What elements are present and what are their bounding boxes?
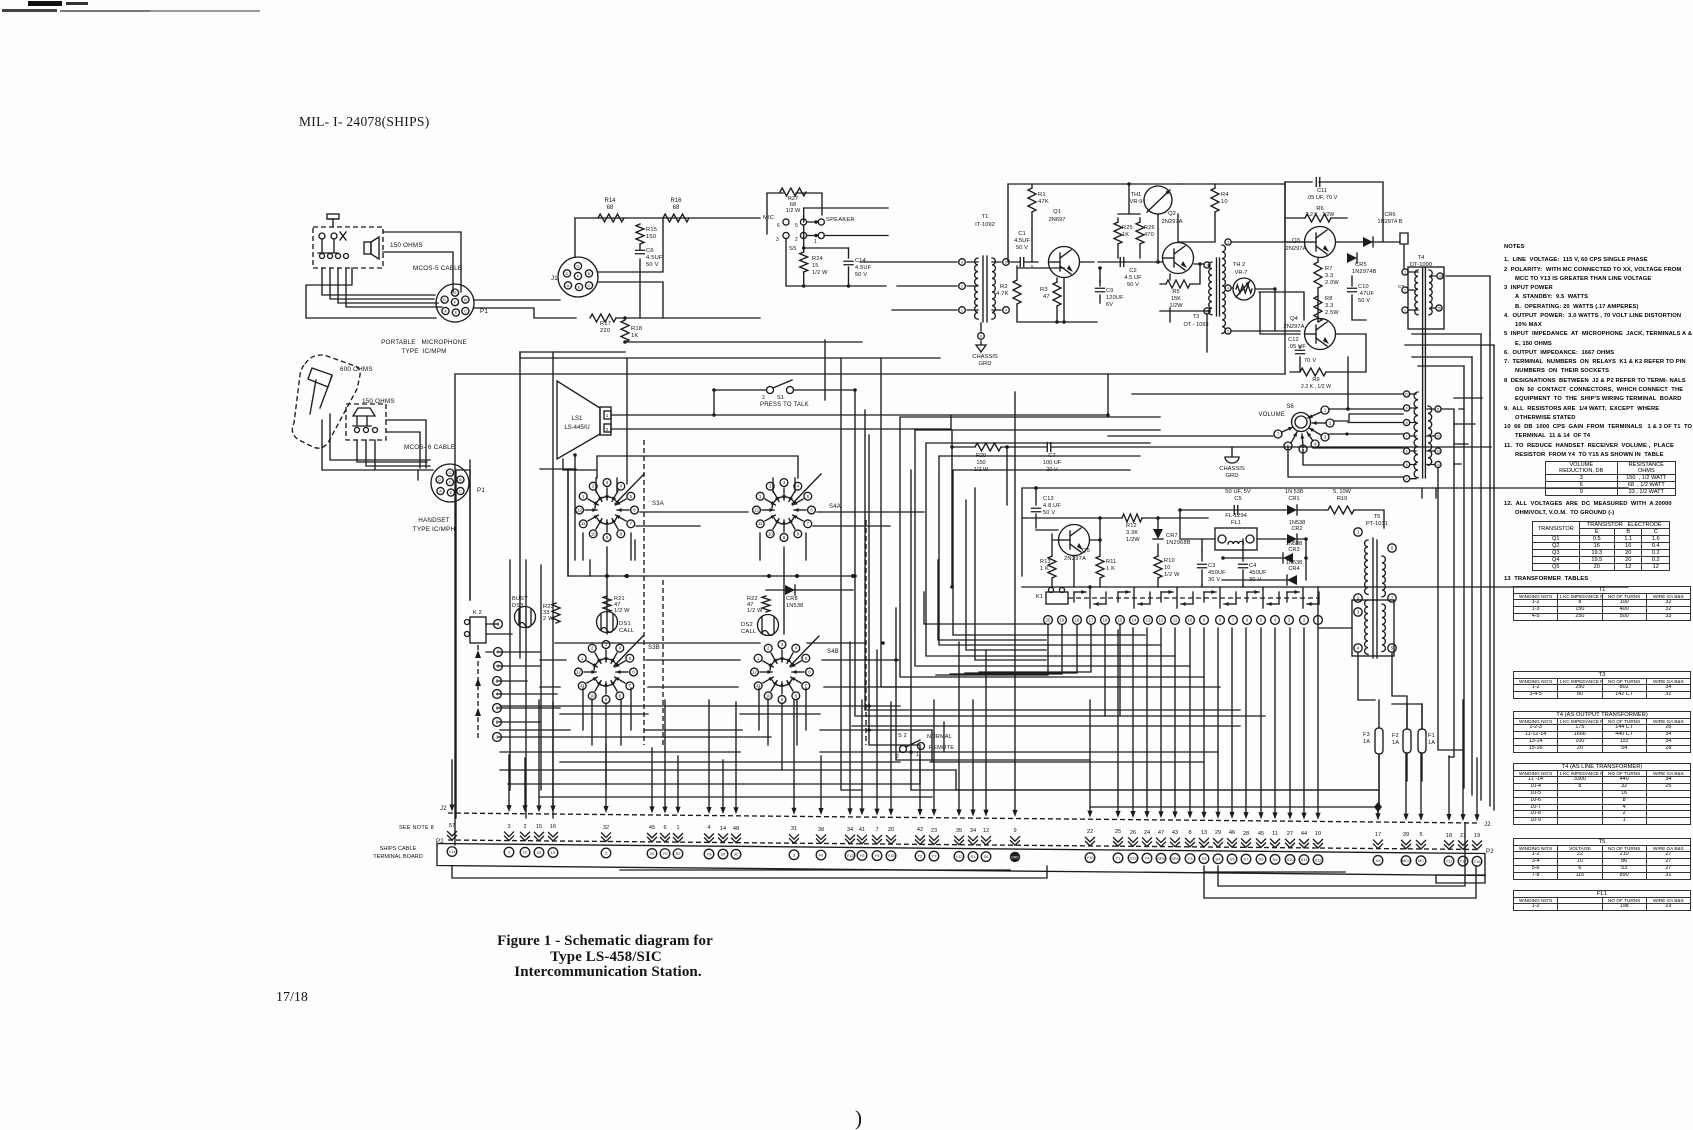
svg-text:CR8: CR8 xyxy=(786,596,798,602)
handset cord wires to P1 xyxy=(322,414,433,480)
svg-text:S1: S1 xyxy=(777,395,784,401)
svg-text:B: B xyxy=(464,297,467,302)
svg-text:1N2968B: 1N2968B xyxy=(1166,540,1191,546)
svg-text:5: 5 xyxy=(1406,463,1408,467)
terminal Y14 chevron xyxy=(448,832,457,841)
svg-text:Intercommunication Station.: Intercommunication Station. xyxy=(514,964,702,980)
svg-text:2N297A: 2N297A xyxy=(1286,246,1307,252)
terminal S1 chevron xyxy=(969,836,978,845)
svg-text:1/2W: 1/2W xyxy=(1169,303,1183,309)
capacitor C10 xyxy=(1348,288,1357,292)
svg-text:Q5: Q5 xyxy=(1082,548,1090,554)
svg-text:R17: R17 xyxy=(600,321,611,327)
svg-text:S12: S12 xyxy=(1314,857,1322,862)
svg-text:Q3: Q3 xyxy=(1292,238,1300,244)
terminal Y3 xyxy=(1185,854,1195,864)
diode CR4 1N538 xyxy=(1287,575,1297,585)
svg-text:45: 45 xyxy=(1258,831,1264,837)
rotary switch S3B xyxy=(578,654,586,662)
svg-text:14: 14 xyxy=(1132,618,1137,623)
terminal 1X xyxy=(548,848,558,858)
ships cable terminal board box xyxy=(437,844,1485,876)
svg-text:Y11: Y11 xyxy=(1446,859,1454,864)
svg-text:R19: R19 xyxy=(1337,496,1347,502)
svg-text:T4: T4 xyxy=(1418,255,1426,261)
svg-text:5: 5 xyxy=(1005,261,1007,265)
svg-text:50 V: 50 V xyxy=(1043,510,1055,516)
wire drop to terminal S3 xyxy=(1203,628,1205,813)
wire rotary interconnect verticals xyxy=(583,478,806,634)
svg-text:TYPE IC/MPM: TYPE IC/MPM xyxy=(401,348,446,355)
transformer T3 OT-1093 xyxy=(1209,262,1212,315)
svg-text:150: 150 xyxy=(976,460,985,466)
svg-text:CALL: CALL xyxy=(619,628,635,634)
svg-text:1N2974B: 1N2974B xyxy=(1352,269,1377,275)
svg-text:30 V: 30 V xyxy=(1208,577,1220,583)
diode CR3 1N538 xyxy=(1283,553,1293,563)
svg-text:F1: F1 xyxy=(1428,733,1435,739)
svg-text:50 V: 50 V xyxy=(1358,298,1370,304)
svg-text:43: 43 xyxy=(1172,830,1178,836)
svg-text:2C: 2C xyxy=(649,851,654,856)
svg-text:44: 44 xyxy=(1301,831,1307,837)
wire drop to terminal Y5 xyxy=(861,700,863,810)
wire drop to terminal Y1 xyxy=(1117,630,1119,812)
wire drop to terminal MC xyxy=(1420,753,1422,815)
svg-text:1K: 1K xyxy=(631,333,639,339)
resistor R8 xyxy=(1314,296,1322,322)
svg-text:S2: S2 xyxy=(676,851,682,856)
wire S3/S4 region verticals xyxy=(455,470,457,818)
thermistor TH1 VR-9 xyxy=(1144,186,1172,214)
terminal T2 xyxy=(915,851,925,861)
wires around Q2 xyxy=(1080,184,1215,322)
svg-text:IT-1092: IT-1092 xyxy=(975,222,995,228)
svg-text:16: 16 xyxy=(550,824,556,830)
wire drop to terminal 1C xyxy=(524,758,526,807)
svg-text:220: 220 xyxy=(600,328,610,334)
capacitor C11 xyxy=(1316,178,1320,187)
svg-text:A: A xyxy=(439,489,442,494)
terminal 4X chevron xyxy=(817,835,826,844)
terminal Y4 xyxy=(1142,853,1152,863)
svg-text:Y16: Y16 xyxy=(1473,859,1481,864)
svg-text:Y7: Y7 xyxy=(932,854,938,859)
terminal S3 chevron xyxy=(1200,838,1209,847)
junction dots xyxy=(853,388,857,392)
svg-text:GRD: GRD xyxy=(979,361,992,367)
svg-text:2: 2 xyxy=(762,395,765,401)
handset earpiece transducer xyxy=(308,368,332,414)
svg-text:J2: J2 xyxy=(1484,822,1491,828)
resistor R23 xyxy=(552,603,560,623)
svg-text:25: 25 xyxy=(1115,829,1121,835)
svg-text:16: 16 xyxy=(1438,275,1442,279)
K2 actuator dashed line xyxy=(477,645,479,738)
terminal S6 chevron xyxy=(982,836,991,845)
svg-text:2: 2 xyxy=(795,237,798,243)
svg-text:SEE NOTE 8: SEE NOTE 8 xyxy=(399,825,434,831)
svg-text:10: 10 xyxy=(1315,831,1321,837)
svg-text:Y4: Y4 xyxy=(1145,856,1151,861)
transformer table T4 output xyxy=(1513,711,1691,753)
note 13 heading xyxy=(1504,576,1588,582)
svg-text:CHASSIS: CHASSIS xyxy=(972,354,998,360)
svg-text:7: 7 xyxy=(875,827,878,833)
relay K1 contact row xyxy=(1068,597,1318,599)
terminal Y10 chevron xyxy=(1086,837,1095,846)
svg-text:1A: 1A xyxy=(1392,740,1399,746)
wire heavy feed to XX xyxy=(1090,807,1378,818)
svg-text:C12: C12 xyxy=(1288,337,1299,343)
svg-text:C: C xyxy=(459,489,462,494)
svg-text:Y10: Y10 xyxy=(1086,855,1094,860)
terminal S5 xyxy=(1227,854,1237,864)
wire drop to terminal S8 xyxy=(1260,628,1262,814)
terminal Y16 xyxy=(1472,856,1482,866)
terminal S12 xyxy=(1313,855,1323,865)
svg-text:.05 UF, 70 V: .05 UF, 70 V xyxy=(1307,195,1338,201)
svg-text:2.2 K , 1/2 W: 2.2 K , 1/2 W xyxy=(1301,384,1331,390)
wire drop to terminal 2C xyxy=(651,748,653,808)
svg-text:1: 1 xyxy=(1404,309,1406,313)
svg-text:38: 38 xyxy=(818,827,824,833)
terminal 2C xyxy=(647,849,657,859)
svg-text:3: 3 xyxy=(1404,271,1406,275)
terminal S4 chevron xyxy=(1214,839,1223,848)
svg-text:12: 12 xyxy=(754,508,759,513)
connector P2 dashed line xyxy=(448,840,1480,850)
svg-text:4.8 UF: 4.8 UF xyxy=(1043,503,1061,509)
svg-text:R3: R3 xyxy=(1040,287,1048,293)
relay K1 terminal circles xyxy=(1044,616,1053,625)
svg-text:C14: C14 xyxy=(855,258,866,264)
capacitor C13 xyxy=(1032,508,1041,512)
svg-text:CR1: CR1 xyxy=(1288,496,1299,502)
svg-text:REMOTE: REMOTE xyxy=(929,745,954,751)
terminal Y11 xyxy=(1444,856,1454,866)
svg-text:PRESS TO TALK: PRESS TO TALK xyxy=(760,402,809,408)
svg-text:4: 4 xyxy=(707,825,710,831)
svg-text:68: 68 xyxy=(607,205,614,211)
svg-text:VR-7: VR-7 xyxy=(1235,270,1248,276)
resistor R25 xyxy=(1114,222,1122,244)
chassis ground (T1) xyxy=(980,341,982,345)
wire Q1 bias network xyxy=(1017,266,1097,322)
svg-text:470: 470 xyxy=(1144,232,1154,238)
svg-text:4.5UF: 4.5UF xyxy=(855,265,872,271)
svg-text:1K: 1K xyxy=(1122,232,1129,238)
svg-text:4: 4 xyxy=(1005,309,1007,313)
svg-text:DS2: DS2 xyxy=(741,622,753,628)
wire R20/C7 row xyxy=(952,430,1491,447)
svg-text:S4A: S4A xyxy=(829,504,841,510)
svg-text:J2: J2 xyxy=(440,806,447,812)
note 4 xyxy=(1504,312,1693,331)
svg-text:47K: 47K xyxy=(1038,199,1049,205)
svg-text:1/2 W: 1/2 W xyxy=(614,608,630,614)
terminal 1C chevron xyxy=(521,832,530,841)
wire drop to terminal S12 xyxy=(1317,628,1319,814)
svg-text:42: 42 xyxy=(917,827,923,833)
svg-text:5: 5 xyxy=(1419,832,1422,838)
terminal Y11 chevron xyxy=(1445,841,1454,850)
wire drop to terminal MC2 xyxy=(1405,753,1407,815)
svg-text:Y3: Y3 xyxy=(1188,856,1194,861)
transistor electrode table xyxy=(1532,521,1670,571)
svg-text:T5: T5 xyxy=(1374,514,1381,520)
thermistor TH2 VR-7 xyxy=(1233,278,1255,300)
svg-text:DS3: DS3 xyxy=(512,603,523,609)
svg-text:C: C xyxy=(464,309,467,314)
svg-text:4.5UF: 4.5UF xyxy=(1014,238,1030,244)
svg-text:45: 45 xyxy=(649,825,655,831)
wires volume to T4 terminals xyxy=(1108,357,1403,477)
terminal MC xyxy=(1416,856,1426,866)
svg-text:41: 41 xyxy=(859,827,865,833)
wire right outer loop xyxy=(1285,182,1494,810)
transistor Q4 2N297A xyxy=(1305,319,1336,350)
diode CR5 1N2974B xyxy=(1347,253,1357,263)
resistor R26 xyxy=(1136,222,1144,244)
svg-text:1X: 1X xyxy=(551,850,556,855)
terminal S5 chevron xyxy=(1228,839,1237,848)
svg-text:12: 12 xyxy=(577,508,582,513)
wire drop to terminal SP4 xyxy=(1174,628,1176,813)
lamp DS1 CALL xyxy=(597,612,618,633)
fuse F1 xyxy=(1418,729,1426,753)
svg-text:S10: S10 xyxy=(1286,857,1294,862)
svg-text:MCOS- 6 CABLE: MCOS- 6 CABLE xyxy=(404,444,455,451)
terminal 3 chevron xyxy=(790,835,799,844)
svg-text:50 V: 50 V xyxy=(1127,282,1139,288)
terminal 23 xyxy=(534,848,544,858)
terminal MC2 chevron xyxy=(1402,840,1411,849)
resistor R20 xyxy=(975,443,1001,451)
svg-text:G: G xyxy=(448,470,451,475)
capacitor C14 xyxy=(848,248,850,286)
volume control S6 xyxy=(1292,413,1311,432)
svg-text:VOLUME: VOLUME xyxy=(1258,412,1285,418)
terminal Y14 xyxy=(447,847,457,857)
wire drop to terminal 1X xyxy=(552,702,554,807)
svg-text:R12: R12 xyxy=(1126,523,1137,529)
svg-text:XX: XX xyxy=(1375,858,1381,863)
switch S1 press-to-talk xyxy=(767,387,774,394)
svg-text:24: 24 xyxy=(1144,830,1150,836)
svg-text:1N2974 B: 1N2974 B xyxy=(1378,219,1403,225)
svg-text:Type LS-458/SIC: Type LS-458/SIC xyxy=(550,949,662,965)
terminal S7 chevron xyxy=(1242,839,1251,848)
terminal Y9 xyxy=(660,849,670,859)
svg-text:17: 17 xyxy=(1375,832,1381,838)
wire drop to terminal T2 xyxy=(919,756,921,810)
svg-text:15K: 15K xyxy=(1171,296,1181,302)
svg-text:23: 23 xyxy=(537,850,542,855)
svg-text:1N538: 1N538 xyxy=(1289,520,1305,526)
svg-text:K 2: K 2 xyxy=(473,610,482,616)
terminal 3 xyxy=(789,850,799,860)
svg-text:23: 23 xyxy=(931,828,937,834)
svg-text:LS1: LS1 xyxy=(572,416,583,422)
terminal Y1 chevron xyxy=(1114,838,1123,847)
terminal Y15 chevron xyxy=(887,836,896,845)
wire drop to terminal Y7 xyxy=(933,700,935,811)
wire extra centre density xyxy=(930,722,1378,790)
svg-text:Y1: Y1 xyxy=(1116,855,1122,860)
terminal S2 chevron xyxy=(674,834,683,843)
terminal SP5 xyxy=(1156,853,1166,863)
svg-text:26: 26 xyxy=(1130,830,1136,836)
resistor R10 xyxy=(1154,556,1162,578)
wire drop to terminal Y15 xyxy=(890,702,892,810)
svg-text:C6: C6 xyxy=(646,248,654,254)
rotary switch S4B xyxy=(754,654,762,662)
svg-text:LS-445/U: LS-445/U xyxy=(564,425,589,431)
svg-text:11: 11 xyxy=(1173,618,1178,623)
svg-text:R1: R1 xyxy=(1038,192,1046,198)
resistor R22 xyxy=(762,596,770,612)
wire drop to terminal 1 xyxy=(508,755,510,807)
svg-text:Y17: Y17 xyxy=(1459,859,1467,864)
svg-text:.47UF: .47UF xyxy=(1358,291,1375,297)
svg-text:Y14: Y14 xyxy=(448,849,456,854)
wire top bus J1 to S5 xyxy=(575,217,760,219)
chassis ground (volume) xyxy=(1225,447,1239,463)
svg-text:SP4: SP4 xyxy=(1171,856,1179,861)
resistor R16 xyxy=(663,214,689,222)
wire drop to terminal S4 xyxy=(1217,628,1219,813)
handset mic element xyxy=(353,408,375,426)
svg-text:4.5 UF: 4.5 UF xyxy=(1124,275,1142,281)
svg-text:CR5: CR5 xyxy=(1355,262,1367,268)
svg-text:B: B xyxy=(588,271,591,276)
wire drop to terminal S9 xyxy=(1274,628,1276,814)
terminal Y6 chevron xyxy=(873,835,882,844)
wire drop to terminal 2 xyxy=(605,745,607,808)
resistor R11 xyxy=(1096,556,1104,578)
svg-text:FL1: FL1 xyxy=(1231,520,1241,526)
svg-text:MC2: MC2 xyxy=(1402,858,1411,863)
svg-text:R15: R15 xyxy=(646,227,657,233)
wire T4 lower secondary out xyxy=(1438,409,1463,757)
diode CR1 1N538 xyxy=(1287,505,1297,515)
resistor R21 xyxy=(603,596,611,612)
svg-text:6: 6 xyxy=(1406,450,1408,454)
terminal Y5 chevron xyxy=(858,835,867,844)
svg-text:TYPE IC/MPH: TYPE IC/MPH xyxy=(413,526,456,533)
svg-text:S3: S3 xyxy=(1202,856,1208,861)
svg-text:15: 15 xyxy=(1437,307,1441,311)
terminal S11 xyxy=(1299,855,1309,865)
transistor Q1 2N697 xyxy=(1049,247,1080,278)
svg-text:CR7: CR7 xyxy=(1166,533,1178,539)
wire K2 riser xyxy=(456,470,512,652)
svg-text:Y5: Y5 xyxy=(860,853,866,858)
svg-text:50 V: 50 V xyxy=(646,262,659,268)
svg-text:31: 31 xyxy=(791,826,797,832)
svg-text:3: 3 xyxy=(961,261,963,265)
svg-text:CT: CT xyxy=(1398,284,1405,289)
wire drop to terminal Y4 xyxy=(1146,628,1148,813)
speaker output wires xyxy=(611,415,1108,429)
svg-text:1 K: 1 K xyxy=(1040,566,1049,572)
svg-text:39: 39 xyxy=(1403,832,1409,838)
handset outline (dashed) xyxy=(292,355,360,448)
svg-text:1N538: 1N538 xyxy=(1286,560,1302,566)
svg-text:D: D xyxy=(443,297,446,302)
svg-text:S1: S1 xyxy=(971,854,977,859)
svg-text:R2: R2 xyxy=(1000,284,1008,290)
svg-text:1: 1 xyxy=(814,239,817,245)
terminal Y7 chevron xyxy=(930,836,939,845)
svg-text:120UF: 120UF xyxy=(1106,295,1124,301)
scan artifact marks xyxy=(28,1,62,6)
svg-text:15: 15 xyxy=(536,824,542,830)
svg-text:68: 68 xyxy=(673,205,680,211)
filter FL1 xyxy=(1215,528,1257,550)
svg-text:C10: C10 xyxy=(1358,284,1369,290)
svg-text:SHIPS CABLE: SHIPS CABLE xyxy=(380,846,417,852)
svg-text:R9: R9 xyxy=(1312,377,1319,383)
connector J2 dashed line xyxy=(448,813,1480,823)
terminal S10 xyxy=(1285,855,1295,865)
svg-text:14: 14 xyxy=(1436,463,1440,467)
wire drop to terminal Y6 xyxy=(876,650,878,810)
svg-text:P1: P1 xyxy=(477,487,485,494)
svg-text:1C: 1C xyxy=(522,850,527,855)
svg-text:CALL: CALL xyxy=(741,629,757,635)
svg-text:17: 17 xyxy=(1089,618,1094,623)
svg-text:50 V: 50 V xyxy=(1016,245,1028,251)
resistor R7 xyxy=(1314,262,1322,288)
wire drop to terminal Y8 xyxy=(708,700,710,808)
wire switch interconnects xyxy=(498,456,924,784)
svg-text:10: 10 xyxy=(1188,618,1193,623)
svg-text:Y15: Y15 xyxy=(887,853,895,858)
terminal SP4 xyxy=(1170,854,1180,864)
svg-text:OT - 1093: OT - 1093 xyxy=(1183,322,1208,328)
svg-text:48: 48 xyxy=(733,826,739,832)
svg-text:Q4: Q4 xyxy=(1290,316,1299,322)
terminal 1C xyxy=(520,847,530,857)
wire drop to terminal S2 xyxy=(677,756,679,808)
svg-text:450UF: 450UF xyxy=(1208,570,1226,576)
svg-text:3: 3 xyxy=(776,237,779,243)
wire drop to terminal Y17 xyxy=(1462,700,1464,816)
resistor R24 xyxy=(800,252,808,272)
svg-text:34: 34 xyxy=(970,828,976,834)
svg-text:15: 15 xyxy=(1118,618,1123,623)
svg-text:10: 10 xyxy=(1164,565,1171,571)
wire drop to terminal SP5 xyxy=(1160,628,1162,813)
svg-text:7: 7 xyxy=(1406,435,1408,439)
resistor R1 xyxy=(1028,188,1036,212)
svg-text:8: 8 xyxy=(1406,421,1408,425)
svg-text:1: 1 xyxy=(1206,264,1208,268)
svg-text:10: 10 xyxy=(1405,393,1409,397)
resistor R5 xyxy=(1166,280,1190,288)
svg-text:2.2 K , 1/2W: 2.2 K , 1/2W xyxy=(1306,212,1335,218)
svg-text:MC: MC xyxy=(1418,858,1424,863)
loudspeaker LS1 xyxy=(557,381,600,459)
terminal S8 chevron xyxy=(1257,839,1266,848)
svg-text:CR2: CR2 xyxy=(1291,526,1302,532)
transformer T4 lower winding xyxy=(1414,392,1418,478)
wire drop to terminal Y10 xyxy=(1089,700,1091,812)
svg-text:2: 2 xyxy=(961,285,963,289)
capacitor C3 xyxy=(1198,564,1207,568)
